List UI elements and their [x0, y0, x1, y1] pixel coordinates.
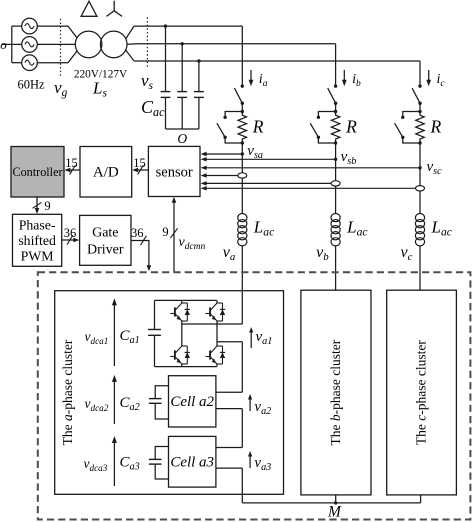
- svg-text:Driver: Driver: [87, 243, 124, 258]
- svg-text:15: 15: [65, 156, 78, 170]
- svg-text:R: R: [252, 117, 264, 137]
- svg-text:sensor: sensor: [156, 165, 193, 181]
- svg-text:Controller: Controller: [12, 165, 62, 179]
- svg-text:36: 36: [64, 226, 77, 240]
- svg-text:15: 15: [133, 156, 146, 170]
- svg-text:A/D: A/D: [93, 165, 119, 181]
- svg-text:9: 9: [162, 225, 168, 239]
- svg-text:Cell a3: Cell a3: [170, 455, 214, 471]
- svg-text:shifted: shifted: [18, 233, 56, 248]
- svg-text:Phase-: Phase-: [19, 218, 56, 233]
- svg-text:R: R: [430, 117, 442, 137]
- svg-text:The c-phase cluster: The c-phase cluster: [414, 340, 429, 445]
- svg-text:60Hz: 60Hz: [17, 78, 45, 92]
- svg-text:The a-phase cluster: The a-phase cluster: [60, 339, 75, 445]
- svg-text:Gate: Gate: [92, 226, 118, 241]
- svg-text:36: 36: [131, 226, 144, 240]
- svg-text:R: R: [345, 117, 357, 137]
- svg-text:o: o: [0, 37, 7, 52]
- svg-text:Cell a2: Cell a2: [170, 394, 214, 410]
- svg-text:O: O: [177, 131, 187, 146]
- svg-text:PWM: PWM: [21, 249, 54, 264]
- svg-text:M: M: [327, 503, 342, 520]
- svg-text:9: 9: [44, 199, 50, 213]
- svg-text:The b-phase cluster: The b-phase cluster: [328, 339, 343, 445]
